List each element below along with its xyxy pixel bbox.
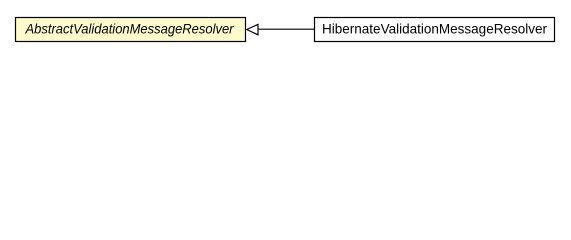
svg-text:HibernateValidationMessageReso: HibernateValidationMessageResolver	[322, 20, 547, 36]
wire: inheritance edge	[259, 28, 315, 30]
inheritance arrowhead (hollow triangle)	[247, 24, 258, 34]
svg-text:AbstractValidationMessageResol: AbstractValidationMessageResolver	[25, 20, 235, 36]
class box HibernateValidationMessageResolver	[315, 18, 555, 42]
background	[0, 0, 571, 59]
class box AbstractValidationMessageResolver (abstract, highlighted)	[16, 18, 246, 42]
